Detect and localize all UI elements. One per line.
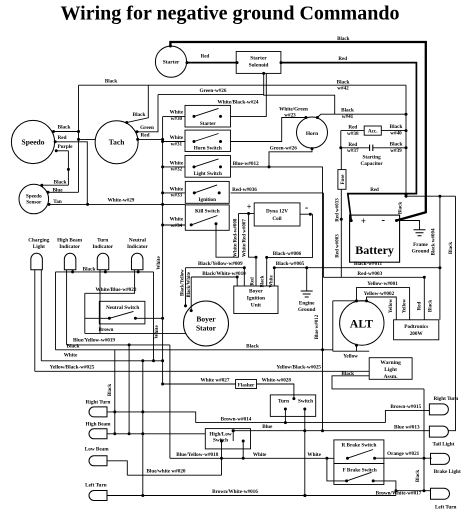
svg-text:Black-w#005: Black-w#005 xyxy=(276,261,305,267)
svg-text:Yellow: Yellow xyxy=(343,353,358,359)
junction turn switch feed terminal xyxy=(292,397,295,400)
wire f brake output xyxy=(373,481,396,496)
wire turn switch left drop xyxy=(284,409,286,423)
label red w038 label xyxy=(347,125,359,137)
svg-text:Neutral: Neutral xyxy=(129,238,147,244)
junction turn switch left contact xyxy=(284,408,287,411)
label white w034 label xyxy=(170,217,184,229)
horn xyxy=(297,117,328,148)
junction coil minus junction xyxy=(309,213,312,216)
junction tach green terminal xyxy=(136,130,139,133)
label black w041 label xyxy=(341,108,354,120)
svg-text:Black: Black xyxy=(337,37,349,42)
junction solenoid right terminal xyxy=(280,61,283,64)
junction black blue w012 junction xyxy=(321,348,324,351)
wire black w006 wire xyxy=(267,214,313,257)
wire turn switch right drop xyxy=(304,409,306,496)
wire accessory ground bus xyxy=(405,85,407,196)
turn switch box xyxy=(270,395,315,417)
label black w039 label xyxy=(390,142,403,154)
svg-text:w#32: w#32 xyxy=(171,167,183,173)
wire black indicator drop xyxy=(114,350,116,434)
label white w032 label xyxy=(170,160,184,172)
wire thick red starter cable solenoid to battery xyxy=(281,63,417,221)
svg-text:R Brake Switch: R Brake Switch xyxy=(341,443,376,449)
kill switch contacts xyxy=(190,216,218,227)
svg-text:Brake Light: Brake Light xyxy=(434,469,461,475)
wire hb indicator feed lead xyxy=(66,270,68,345)
svg-text:White: White xyxy=(307,452,321,458)
junction bus w040 junction xyxy=(405,129,408,132)
svg-text:Right Turn: Right Turn xyxy=(433,396,458,402)
svg-text:Red: Red xyxy=(417,301,422,310)
svg-text:Capacitor: Capacitor xyxy=(361,161,384,167)
podtronics regulator xyxy=(394,320,439,340)
junction high low right contact xyxy=(242,440,245,443)
wire blue yellow w019 wire xyxy=(67,344,170,346)
warning light assembly xyxy=(369,358,412,380)
svg-text:White: White xyxy=(170,110,184,116)
wire yellow black w025 wire xyxy=(35,370,369,372)
low beam lamp xyxy=(89,456,107,466)
wire brown stator wire xyxy=(85,332,186,334)
wire ignition switch feed xyxy=(163,192,186,194)
label black w040 label xyxy=(390,124,403,136)
svg-text:Stator: Stator xyxy=(196,324,217,333)
wire charging white lead xyxy=(40,270,42,361)
junction horn bottom terminal xyxy=(311,147,314,150)
wire red w003 riser xyxy=(322,193,324,277)
label white w033 label xyxy=(170,186,184,198)
wire brown w015 wire xyxy=(385,410,429,422)
junction rt black junction xyxy=(113,410,116,413)
svg-text:Black: Black xyxy=(399,202,404,214)
brake light lamp xyxy=(431,453,450,464)
junction coil plus junction xyxy=(247,212,250,215)
svg-text:Blue w#012: Blue w#012 xyxy=(315,314,320,339)
svg-text:White w#027: White w#027 xyxy=(201,377,230,383)
starting capacitor xyxy=(370,145,373,151)
svg-text:-: - xyxy=(305,203,308,214)
starter switch contacts xyxy=(193,108,223,118)
wire tach red wire xyxy=(138,138,163,140)
junction tach stub junction xyxy=(77,138,80,141)
junction white boyer junction xyxy=(273,266,276,269)
label dyna coil text xyxy=(266,209,288,222)
svg-text:w#41: w#41 xyxy=(342,114,354,120)
wire engine ground drop xyxy=(306,268,308,291)
svg-text:Speedo: Speedo xyxy=(26,194,42,200)
svg-text:Neutral Switch: Neutral Switch xyxy=(106,305,139,311)
tachometer xyxy=(95,121,138,164)
svg-text:Black: Black xyxy=(390,142,403,148)
wire fuse bottom wire xyxy=(340,189,342,277)
label black w042 label xyxy=(337,79,350,91)
svg-text:Brown-w#014: Brown-w#014 xyxy=(221,416,252,422)
wire w019 w018 link xyxy=(169,345,171,458)
svg-text:Sensor: Sensor xyxy=(26,200,42,206)
svg-text:Boyer: Boyer xyxy=(196,315,216,324)
junction bus red junction xyxy=(405,193,408,196)
label boyer text xyxy=(247,289,265,309)
engine ground symbol xyxy=(301,291,313,297)
junction hb w019 junction xyxy=(128,432,131,435)
svg-text:+: + xyxy=(247,203,252,212)
svg-text:Boyer: Boyer xyxy=(249,289,263,295)
junction horn left terminal xyxy=(304,116,307,119)
label boyer stator text xyxy=(196,315,217,333)
svg-text:Red: Red xyxy=(251,277,256,286)
svg-text:Red w#003: Red w#003 xyxy=(335,234,340,258)
label neutral indicator label xyxy=(127,238,148,251)
neutral indicator lamp xyxy=(131,253,143,269)
svg-text:Low Beam: Low Beam xyxy=(85,447,109,453)
wire blue yellow w018 white line xyxy=(170,457,334,459)
junction bus w039 junction xyxy=(405,146,408,149)
svg-text:White: White xyxy=(64,353,78,359)
wire black lamp line xyxy=(56,349,333,351)
junction turn indicator bus junction xyxy=(104,270,107,273)
svg-text:Frame: Frame xyxy=(413,242,428,248)
svg-text:Black: Black xyxy=(261,275,266,287)
wire solenoid ground drop xyxy=(264,73,335,114)
junction bus kill row corner xyxy=(161,224,164,227)
label starter solenoid text xyxy=(249,56,269,69)
svg-text:-: - xyxy=(381,214,385,226)
wire low beam lamp wire xyxy=(107,461,127,475)
junction black drop white junction xyxy=(152,359,155,362)
wire high beam output xyxy=(242,441,244,458)
svg-text:w#38: w#38 xyxy=(347,131,359,137)
svg-text:Switch: Switch xyxy=(298,398,313,404)
label podtronics text xyxy=(404,324,428,337)
left turn lamp right xyxy=(431,488,450,499)
svg-text:Blue: Blue xyxy=(262,424,273,430)
svg-text:w#42: w#42 xyxy=(337,86,349,92)
label starting capacitor label xyxy=(361,155,384,168)
svg-text:Black/White-w#010: Black/White-w#010 xyxy=(202,271,246,277)
wire stator black yellow drop xyxy=(185,268,187,306)
wire black white w010 wire xyxy=(191,276,237,278)
junction hb black junction xyxy=(113,432,116,435)
high beam lamp xyxy=(89,429,107,439)
junction alt yellow2 terminal xyxy=(365,299,368,302)
label red w037 label xyxy=(347,142,359,154)
wire black w041 wire xyxy=(317,114,406,117)
svg-text:Yellow-w#002: Yellow-w#002 xyxy=(364,291,395,297)
wire warning black wire xyxy=(332,376,424,389)
svg-text:White: White xyxy=(170,186,184,192)
svg-text:Flasher: Flasher xyxy=(238,382,255,388)
f brake contacts xyxy=(345,472,375,482)
junction white line rt junction xyxy=(141,359,144,362)
junction bus w041 junction xyxy=(405,113,408,116)
f brake switch box xyxy=(334,464,384,485)
wire black ground bus top xyxy=(79,84,407,86)
junction hb white junction xyxy=(141,432,144,435)
svg-text:Charging: Charging xyxy=(28,238,49,244)
wire neutral switch output xyxy=(135,317,162,319)
starter motor xyxy=(155,46,186,77)
junction red tan junction xyxy=(86,203,89,206)
svg-text:Assm.: Assm. xyxy=(384,374,399,380)
svg-text:Green-w#26: Green-w#26 xyxy=(200,88,227,94)
svg-text:w#33: w#33 xyxy=(171,193,183,199)
svg-text:Black: Black xyxy=(341,108,354,114)
battery xyxy=(350,215,400,262)
svg-text:Ignition: Ignition xyxy=(198,197,216,203)
wire w019 high beam drop xyxy=(128,345,130,434)
wire starter switch feed xyxy=(163,116,185,118)
label high beam indicator label xyxy=(57,238,83,251)
svg-text:White/Black-w#24: White/Black-w#24 xyxy=(218,99,259,105)
svg-text:Blue/Yellow-w#018: Blue/Yellow-w#018 xyxy=(176,452,218,458)
wire charging yb lead xyxy=(34,270,36,372)
junction stator terminal 1 xyxy=(184,304,187,307)
wire tach green wire xyxy=(137,95,158,132)
junction white bus tach junction xyxy=(161,138,164,141)
junction brake ground junction xyxy=(423,457,426,460)
accessory box xyxy=(364,126,381,135)
junction blue highlow junction xyxy=(232,429,235,432)
svg-text:White: White xyxy=(253,452,267,458)
wire black bus left drop xyxy=(55,272,57,350)
junction sensor blue terminal xyxy=(47,191,50,194)
wire neutral switch feed riser xyxy=(84,293,86,333)
wire low beam output xyxy=(221,441,223,475)
ignition switch box xyxy=(185,181,229,203)
wire blue w012 wire xyxy=(231,167,323,431)
svg-text:ALT: ALT xyxy=(350,317,373,331)
junction neutral indicator bus junction xyxy=(137,270,140,273)
label frame ground label xyxy=(412,242,430,254)
svg-text:Brown/White-w#017: Brown/White-w#017 xyxy=(376,491,422,497)
wire high beam lamp wire xyxy=(107,433,205,435)
junction alt bottom terminal xyxy=(355,344,358,347)
svg-text:Brown-w#015: Brown-w#015 xyxy=(390,404,421,410)
svg-text:Light: Light xyxy=(384,367,397,373)
junction high low left contact xyxy=(220,440,223,443)
svg-text:w#39: w#39 xyxy=(390,148,402,154)
junction white bus w027 junction xyxy=(161,383,164,386)
svg-text:Black: Black xyxy=(416,470,421,482)
svg-text:Black/Yellow-w#009: Black/Yellow-w#009 xyxy=(198,261,243,267)
svg-text:High Beam: High Beam xyxy=(57,238,83,244)
wire white lamp line xyxy=(41,360,162,362)
svg-text:Left Turn: Left Turn xyxy=(85,483,107,489)
junction stub w004 junction xyxy=(438,195,441,198)
wire brown white w017 wire xyxy=(396,490,431,492)
wire lamp ground bus xyxy=(423,389,425,491)
svg-text:Black: Black xyxy=(67,343,80,349)
svg-text:Black: Black xyxy=(54,179,67,185)
svg-text:Dyna 12V: Dyna 12V xyxy=(266,209,288,215)
dyna coil xyxy=(254,203,300,226)
junction tach black terminal xyxy=(125,121,128,124)
svg-text:Black: Black xyxy=(337,79,350,85)
svg-text:Indicator: Indicator xyxy=(92,244,113,250)
svg-text:Yellow/Black-w#025: Yellow/Black-w#025 xyxy=(50,365,95,371)
svg-text:Red-w#036: Red-w#036 xyxy=(232,187,257,193)
wire brown w014 wire xyxy=(196,422,386,424)
alternator xyxy=(340,301,384,345)
svg-text:Black: Black xyxy=(58,125,71,131)
junction engine ground junction xyxy=(305,266,308,269)
r brake switch box xyxy=(334,440,384,464)
svg-text:Indicator: Indicator xyxy=(59,244,80,250)
svg-text:Red: Red xyxy=(348,142,357,148)
junction horn right terminal xyxy=(316,116,319,119)
svg-text:Blue/white w#020: Blue/white w#020 xyxy=(146,469,185,475)
wire boyer w010 drop xyxy=(236,277,238,286)
label turn indicator label xyxy=(92,238,113,251)
svg-text:Ground: Ground xyxy=(298,307,316,313)
junction w017 junction xyxy=(394,489,397,492)
kill switch box xyxy=(185,205,229,230)
svg-text:Black: Black xyxy=(108,384,113,396)
junction bus horn row junction xyxy=(161,140,164,143)
wire black w005 w011 ground line xyxy=(274,267,440,269)
junction w014 turnswitch junction xyxy=(284,421,287,424)
wire black w040 wire xyxy=(381,130,406,132)
high beam indicator lamp xyxy=(64,253,76,269)
wire right turn lamp wire xyxy=(107,412,196,423)
svg-text:Black: Black xyxy=(133,112,146,118)
wire red w003 wire xyxy=(323,276,424,278)
svg-text:Fuse: Fuse xyxy=(341,174,346,185)
svg-text:Wiring for negative ground Com: Wiring for negative ground Commando xyxy=(61,3,400,25)
wire red w038 wire xyxy=(341,130,364,132)
charging light lamp xyxy=(31,253,42,269)
label white w030 label xyxy=(170,110,184,122)
svg-text:Horn: Horn xyxy=(306,131,318,137)
wire tach left stub xyxy=(79,138,96,140)
wire sensor blue wire xyxy=(48,191,79,193)
label speedo sensor text xyxy=(26,194,42,206)
wire yellow w001 wire xyxy=(357,288,410,320)
svg-text:Ignition: Ignition xyxy=(247,296,265,302)
svg-text:Yellow-w#001: Yellow-w#001 xyxy=(367,281,398,287)
svg-text:Tan: Tan xyxy=(53,199,62,205)
svg-text:Brown/White-w#016: Brown/White-w#016 xyxy=(212,489,258,495)
svg-text:Green-w#26: Green-w#26 xyxy=(270,146,297,152)
left turn lamp left xyxy=(89,491,107,501)
neutral switch box xyxy=(99,301,145,324)
svg-text:Unit: Unit xyxy=(251,303,261,309)
right turn lamp left xyxy=(89,407,107,417)
wire boyer red input wire xyxy=(243,268,245,286)
svg-text:w#31: w#31 xyxy=(171,141,183,147)
right turn lamp right xyxy=(429,404,448,415)
wire speedo purple wire xyxy=(56,150,68,152)
label warning light text xyxy=(380,360,401,380)
svg-text:Red: Red xyxy=(338,57,347,62)
svg-text:Yellow/Black-w#025: Yellow/Black-w#025 xyxy=(276,364,321,370)
svg-text:White-w#028: White-w#028 xyxy=(262,377,292,383)
svg-text:Battery: Battery xyxy=(355,243,394,257)
svg-text:White/Red-w#008: White/Red-w#008 xyxy=(233,218,238,257)
svg-text:Acc.: Acc. xyxy=(368,129,378,135)
junction w010 boyer junction xyxy=(236,276,239,279)
wire neutral switch feed stub xyxy=(85,317,110,319)
junction lt white junction xyxy=(141,494,144,497)
svg-text:Yellow: Yellow xyxy=(389,299,394,314)
svg-text:w#23: w#23 xyxy=(284,113,296,119)
junction turn switch right contact xyxy=(303,408,306,411)
svg-text:Starter: Starter xyxy=(163,60,180,66)
svg-text:w#34: w#34 xyxy=(171,223,183,229)
svg-text:Tach: Tach xyxy=(109,138,125,147)
wire horn ground tap xyxy=(269,148,312,167)
svg-text:Red: Red xyxy=(141,133,150,139)
svg-text:Black: Black xyxy=(341,371,354,377)
junction blue w012 horn junction xyxy=(268,165,271,168)
wire alt left frame wire xyxy=(333,300,367,302)
junction high low feed contact xyxy=(232,429,235,432)
wire left turn lamp wire xyxy=(107,495,396,497)
svg-text:Black-w#011: Black-w#011 xyxy=(354,261,383,267)
junction battery positive terminal xyxy=(350,219,353,222)
svg-text:Coil: Coil xyxy=(272,216,282,222)
wire tach black wire xyxy=(127,85,149,122)
wire black bus right drop xyxy=(153,272,155,361)
speedo sensor xyxy=(19,184,49,214)
neutral switch contacts xyxy=(108,311,137,319)
junction fuse red junction xyxy=(340,218,343,221)
junction sensor tan terminal xyxy=(48,203,51,206)
junction tach red terminal xyxy=(136,138,139,141)
wire white turn drop xyxy=(142,361,144,496)
junction neutral white bus junction xyxy=(161,317,164,320)
wire white w028 wire xyxy=(257,384,294,399)
svg-text:Red: Red xyxy=(201,55,210,60)
svg-text:Black: Black xyxy=(449,242,454,254)
svg-text:Red w#033: Red w#033 xyxy=(335,198,340,222)
wire speedo black wire xyxy=(53,131,79,133)
svg-text:Brown: Brown xyxy=(99,327,114,333)
svg-text:200W: 200W xyxy=(410,331,424,337)
wire battery negative to frame ground xyxy=(397,221,420,230)
junction red boyer junction xyxy=(255,256,258,259)
junction battery negative terminal xyxy=(395,219,398,222)
svg-text:White/Blue-w#022: White/Blue-w#022 xyxy=(96,287,137,293)
svg-text:Black: Black xyxy=(390,124,403,130)
high low switch box xyxy=(205,429,250,449)
junction red w003 podtronics junction xyxy=(423,276,426,279)
svg-text:Red: Red xyxy=(370,188,379,193)
junction hb indicator bus junction xyxy=(71,270,74,273)
svg-text:Black: Black xyxy=(246,343,259,349)
starter solenoid xyxy=(236,52,281,74)
svg-text:Horn Switch: Horn Switch xyxy=(194,145,222,151)
svg-text:Turn: Turn xyxy=(97,238,108,244)
junction blue w012 tail junction xyxy=(321,429,324,432)
junction stator terminal 2 xyxy=(190,309,193,312)
junction turn right blue junction xyxy=(303,429,306,432)
svg-text:Solenoid: Solenoid xyxy=(249,63,269,69)
turn indicator lamp xyxy=(97,253,109,269)
wire sensor black wire xyxy=(41,184,68,186)
svg-text:Black-w#006: Black-w#006 xyxy=(273,251,302,257)
junction white bus w029 junction xyxy=(161,203,164,206)
svg-text:White: White xyxy=(170,217,184,223)
wire high beam indicator ground lead xyxy=(72,270,74,272)
junction w018 cross junction xyxy=(220,457,223,460)
svg-text:Orange w#021: Orange w#021 xyxy=(387,451,420,457)
wire yellow w002 wire xyxy=(367,297,397,320)
svg-text:Indicator: Indicator xyxy=(127,244,148,250)
junction w009 boyer junction xyxy=(243,266,246,269)
